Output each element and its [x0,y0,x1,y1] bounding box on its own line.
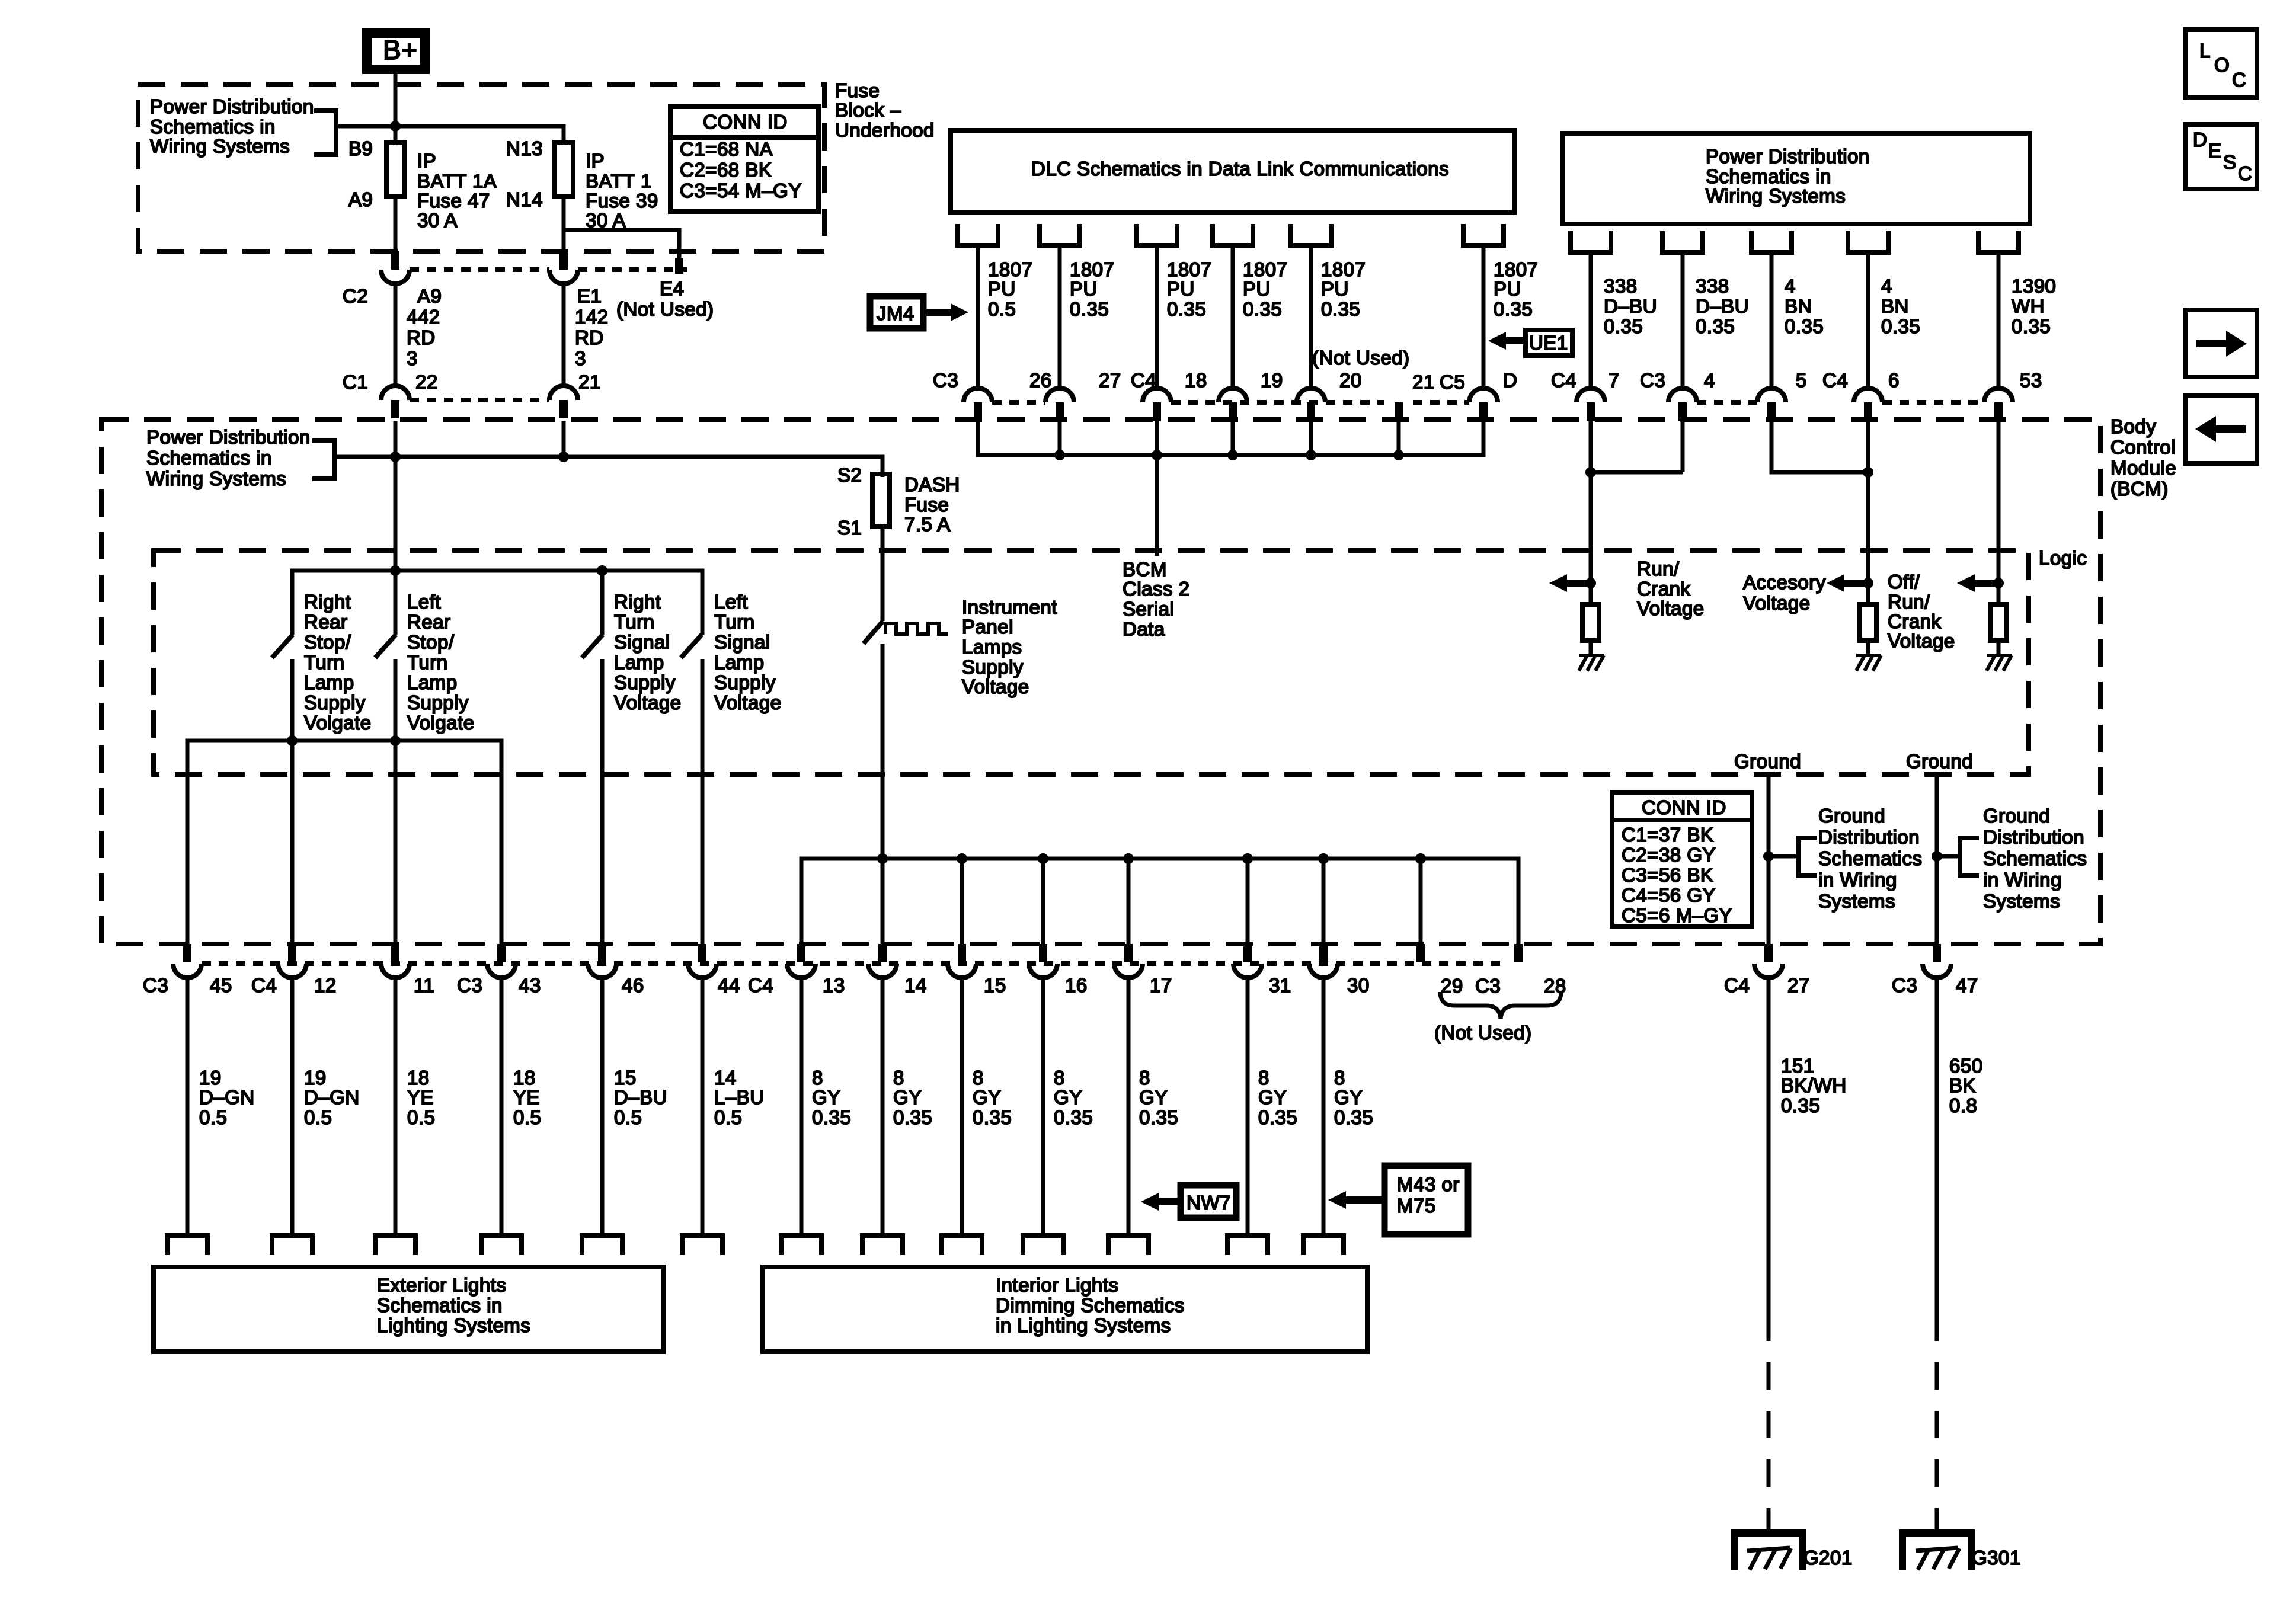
svg-text:GY: GY [973,1086,1002,1108]
node junction 7-4 [1585,467,1596,478]
svg-text:GY: GY [1139,1086,1168,1108]
ground internal 3 [1987,655,2012,671]
svg-text:Ground: Ground [1906,750,1973,772]
exterior pin bracket [165,1235,210,1255]
svg-text:BATT 1: BATT 1 [586,170,652,192]
wire ground 650 dashed [1935,1314,1939,1515]
wire sw4 bottom [701,659,705,944]
wire DASH fuse to switch [881,524,885,621]
dotted connector line bottom row [202,961,1500,966]
svg-text:C4: C4 [748,974,773,996]
svg-text:0.5: 0.5 [304,1106,332,1128]
svg-text:PU: PU [1494,278,1521,300]
svg-text:Schematics in: Schematics in [1706,165,1831,187]
svg-text:0.35: 0.35 [1881,315,1920,337]
bracket ground distribution 1 [1798,838,1817,876]
connector bottom stub [183,944,191,962]
svg-text:22: 22 [415,371,438,393]
svg-text:C3: C3 [143,974,168,996]
svg-text:0.5: 0.5 [407,1106,435,1128]
svg-text:Distribution: Distribution [1818,826,1920,848]
svg-text:30 A: 30 A [586,209,626,231]
svg-text:19: 19 [304,1067,327,1089]
svg-text:Supply: Supply [304,692,366,713]
svg-text:Module: Module [2110,457,2176,479]
svg-text:GY: GY [1258,1086,1287,1108]
connector bottom stub [288,944,296,962]
svg-text:C4: C4 [1724,974,1750,996]
svg-text:7.5 A: 7.5 A [904,513,951,535]
svg-text:BN: BN [1785,295,1812,317]
fuse IP BATT 1 Fuse 39 30A [555,142,573,197]
connector DLC pin arc 6 [1469,388,1498,402]
svg-text:0.5: 0.5 [988,298,1016,320]
wire lamp output 18 [394,977,398,1235]
svg-text:Voltage: Voltage [1743,592,1811,614]
svg-text:YE: YE [513,1086,540,1108]
svg-text:C3: C3 [1892,974,1917,996]
DLC pin bracket 5 [1288,224,1334,245]
wire sw3 bottom [600,659,605,944]
node ground 47 tap [1932,851,1942,862]
svg-text:Stop/: Stop/ [304,631,351,653]
DESC box [2185,124,2257,189]
svg-text:B9: B9 [348,137,373,159]
Power Distribution Schematics box (right) [1562,133,2030,224]
svg-text:20: 20 [1339,369,1362,391]
node junction B+ feed [390,121,401,132]
wire resistor 3 to ground [1997,641,2001,655]
connector pin 47 arc [1923,964,1951,978]
exterior pin bracket [270,1235,315,1255]
connector DLC pin arc 2 [1045,388,1074,402]
wire DLC pin tap [1231,421,1235,455]
svg-text:C5=6 M–GY: C5=6 M–GY [1622,904,1732,926]
wire bus2 drop [960,859,964,944]
svg-text:BK/WH: BK/WH [1781,1074,1847,1096]
dotted connector line C2-E1 [410,267,549,272]
svg-text:C1: C1 [343,371,368,393]
node ground 27 tap [1763,851,1774,862]
dotted line 21-D [1413,400,1469,405]
svg-text:47: 47 [1956,974,1978,996]
svg-text:Fuse 47: Fuse 47 [417,190,490,212]
svg-text:44: 44 [718,974,740,996]
svg-text:L: L [2199,40,2211,62]
svg-text:Volgate: Volgate [304,712,372,734]
svg-text:(BCM): (BCM) [2110,478,2169,500]
svg-text:0.35: 0.35 [1494,298,1533,320]
svg-text:338: 338 [1604,275,1638,297]
wire sw1 bottom [290,659,295,944]
wire PD pin 3 [1770,252,1774,388]
svg-text:Fuse 39: Fuse 39 [586,190,658,212]
svg-text:Supply: Supply [614,671,676,693]
node tap run/crank [1585,578,1596,588]
svg-text:Schematics in: Schematics in [146,447,272,469]
svg-text:C4=56 GY: C4=56 GY [1622,884,1716,906]
interior pin bracket [1301,1235,1346,1255]
arrow box JM4 [870,296,923,328]
wire branch to fuse 39 [395,126,564,145]
connector bottom arc [1233,964,1262,978]
svg-text:1807: 1807 [1494,258,1538,280]
wire DLC pin 6 [1482,245,1486,388]
svg-text:Wiring Systems: Wiring Systems [150,135,290,157]
svg-text:Left: Left [714,591,748,613]
wire lamp output 14 [701,977,705,1235]
connector bottom stub [878,944,887,962]
node tap off/run/crank [1993,578,2004,588]
node bus2 junction [1242,853,1253,864]
svg-text:Schematics: Schematics [1818,847,1923,869]
connector bottom stub [391,944,399,962]
svg-text:0.35: 0.35 [1321,298,1360,320]
dotted line 26-27 [992,400,1045,405]
svg-text:Schematics in: Schematics in [150,116,276,137]
arrow accessory voltage [1827,574,1844,592]
wire feeder bus switches [292,571,702,635]
svg-text:Lamp: Lamp [304,671,354,693]
svg-text:Signal: Signal [614,631,670,653]
svg-text:in Wiring: in Wiring [1983,869,2062,891]
svg-text:19: 19 [199,1067,222,1089]
wire 442 RD 3 [394,284,398,386]
svg-text:14: 14 [904,974,927,996]
svg-text:31: 31 [1269,974,1291,996]
node bus2 junction [1318,853,1329,864]
svg-text:8: 8 [1054,1067,1065,1089]
svg-text:E4: E4 [660,277,684,299]
dotted connector line E1-E4 [578,267,687,272]
Logic dashed box [154,550,2029,774]
svg-text:N14: N14 [506,188,543,210]
connector C2 stub [391,251,399,270]
connector bottom arc [787,964,816,978]
svg-text:0.35: 0.35 [1604,315,1643,337]
svg-text:11: 11 [414,974,434,996]
brace not used 29-28 [1440,992,1561,1019]
node bus2 junction [1038,853,1048,864]
CONN ID table (fuse block) [670,107,818,212]
wire lamp output 18 [500,977,504,1235]
svg-text:C3=54 M–GY: C3=54 M–GY [680,180,802,201]
connector DLC pin arc 4 [1219,388,1247,402]
svg-text:(Not Used): (Not Used) [1312,347,1410,369]
connector bottom arc [173,964,202,978]
resistor run/crank [1582,604,1599,641]
svg-text:D–GN: D–GN [199,1086,255,1108]
wire DLC pin tap [1058,421,1062,455]
svg-text:C: C [2238,162,2252,184]
DLC pin bracket 6 [1461,224,1506,245]
svg-text:Panel: Panel [962,616,1013,638]
svg-text:0.35: 0.35 [1070,298,1109,320]
PD pin bracket 3 [1749,231,1794,252]
svg-text:18: 18 [407,1067,430,1089]
arrow box left [2185,396,2257,463]
connector bottom arc [948,964,976,978]
wire 142 RD 3 [562,284,566,386]
exterior pin bracket [479,1235,524,1255]
arrow run/crank voltage [1549,574,1567,592]
svg-text:Left: Left [407,591,441,613]
svg-text:Underhood: Underhood [835,119,935,141]
connector pin 47 stub [1933,944,1941,962]
node junction 5-6 [1863,467,1873,478]
fuse block - underhood dashed box [138,84,824,251]
connector E1 stub [559,251,568,270]
svg-text:15: 15 [614,1067,637,1089]
svg-text:JM4: JM4 [877,302,914,324]
node bus2 junction [1415,853,1426,864]
svg-text:PU: PU [1243,278,1271,300]
svg-text:30 A: 30 A [417,209,458,231]
svg-text:Run/: Run/ [1888,591,1930,613]
wire resistor 2 to ground [1866,641,1870,655]
svg-text:C3: C3 [457,974,482,996]
svg-text:30: 30 [1347,974,1370,996]
DLC Schematics box [951,130,1514,212]
connector C1 pin 22 [381,386,410,400]
connector pin 27 stub [1764,944,1773,962]
svg-text:C3: C3 [933,369,958,391]
svg-text:C2=38 GY: C2=38 GY [1622,844,1716,866]
svg-text:45: 45 [210,974,232,996]
svg-text:650: 650 [1949,1055,1983,1077]
svg-text:17: 17 [1150,974,1172,996]
bracket to PD label (BCM) [312,441,334,479]
svg-text:1807: 1807 [1243,258,1287,280]
interior pin bracket [1106,1235,1151,1255]
svg-text:3: 3 [407,347,418,369]
connector bottom arc [1029,964,1057,978]
dimmer wave symbol [885,623,948,634]
svg-text:Crank: Crank [1637,578,1691,600]
svg-text:O: O [2214,54,2230,76]
svg-text:S2: S2 [837,464,862,486]
wire bus2 drop [1041,859,1045,944]
connector DLC pin arc 5 [1297,388,1325,402]
connector bottom arc [1309,964,1338,978]
svg-text:PU: PU [988,278,1016,300]
svg-text:Distribution: Distribution [1983,826,2084,848]
svg-text:Accesory: Accesory [1743,571,1826,593]
connector bottom arc [868,964,897,978]
svg-text:0.35: 0.35 [1258,1106,1297,1128]
wire to bracket 1 [1769,854,1798,859]
connector bottom stub [698,944,706,962]
svg-text:D: D [2193,129,2207,151]
connector DLC pin arc 3 [1143,388,1171,402]
svg-text:0.5: 0.5 [614,1106,642,1128]
svg-text:18: 18 [513,1067,536,1089]
svg-text:26: 26 [1029,369,1052,391]
node junction 21 feed [558,452,569,462]
svg-text:Serial: Serial [1123,598,1174,620]
ground G201 [1734,1533,1803,1570]
svg-text:C1=68 NA: C1=68 NA [680,138,773,160]
arrow box M43 or M75 [1384,1166,1468,1234]
svg-text:Systems: Systems [1818,890,1895,912]
svg-text:0.35: 0.35 [973,1106,1012,1128]
wire dimming output [1246,977,1250,1235]
svg-text:21: 21 [1412,371,1435,393]
svg-text:BATT 1A: BATT 1A [417,170,497,192]
connector pin 28 stub (not used) [1514,944,1523,962]
svg-text:Lamp: Lamp [407,671,458,693]
connector pin 21 C5 stub (not used) [1395,402,1403,421]
svg-text:Data: Data [1123,618,1165,640]
connector PD pin arc 2 [1668,388,1697,402]
wire PD pin 4 [1866,252,1870,388]
svg-text:C4: C4 [1822,369,1848,391]
svg-text:1807: 1807 [1167,258,1211,280]
wire dimming output [1041,977,1045,1235]
svg-text:N13: N13 [506,137,543,159]
wire bus2 drop [1127,859,1131,944]
svg-text:Ground: Ground [1983,805,2050,827]
wire interior lights bus [801,859,1518,944]
DLC pin bracket 4 [1210,224,1255,245]
DLC pin bracket 2 [1037,224,1082,245]
dotted connector line 22-21 [410,398,549,402]
svg-text:D: D [1503,369,1517,391]
exterior pin bracket [373,1235,418,1255]
arrow M43 [1328,1191,1346,1209]
svg-text:C3=56 BK: C3=56 BK [1622,864,1713,886]
svg-text:BK: BK [1949,1074,1976,1096]
switch right rear stop/turn [272,635,293,658]
svg-text:BN: BN [1881,295,1909,317]
wire pin22 internal [394,421,398,635]
svg-text:Turn: Turn [407,651,448,673]
svg-text:Rear: Rear [407,611,451,633]
wire pin21 internal [562,421,566,457]
arrow box NW7 [1181,1185,1236,1218]
svg-text:Exterior Lights: Exterior Lights [377,1274,506,1296]
connector PD pin arc 5 [1984,388,2013,402]
svg-text:Power Distribution: Power Distribution [150,95,314,117]
wire DLC pin 4 [1231,245,1235,388]
wire BCM class 2 serial data [1155,455,1159,556]
svg-text:D–BU: D–BU [614,1086,667,1108]
svg-text:0.5: 0.5 [199,1106,227,1128]
wire bus2 drop [1246,859,1250,944]
interior pin bracket [1021,1235,1066,1255]
node DLC bus junction [1054,450,1065,460]
wire DLC internal bus [978,421,1483,455]
connector bottom stub [598,944,606,962]
svg-text:0.5: 0.5 [513,1106,541,1128]
svg-text:29: 29 [1441,975,1463,997]
svg-text:43: 43 [519,974,541,996]
svg-text:WH: WH [2012,295,2045,317]
node feeder junction sw3 [597,565,607,576]
svg-text:19: 19 [1261,369,1283,391]
svg-text:8: 8 [893,1067,904,1089]
svg-text:PU: PU [1070,278,1098,300]
svg-text:DASH: DASH [904,473,960,495]
svg-text:Volgate: Volgate [407,712,475,734]
arrow off/run/crank voltage [1957,574,1975,592]
svg-text:Supply: Supply [714,671,776,693]
wire pin53 internal [1997,421,2001,604]
node bus1 junction sw2 [390,735,401,746]
svg-text:in Wiring: in Wiring [1818,869,1897,891]
svg-text:Supply: Supply [962,656,1024,678]
svg-text:GY: GY [893,1086,922,1108]
svg-text:NW7: NW7 [1187,1192,1231,1214]
DLC pin bracket 1 [955,224,1000,245]
wire DLC pin 5 [1309,245,1313,388]
switch instrument panel lamps [864,621,883,644]
svg-text:Turn: Turn [714,611,755,633]
connector bottom stub [958,944,966,962]
switch right turn signal [582,635,603,658]
wire output bus rear lamps [187,741,501,944]
svg-text:C2=68 BK: C2=68 BK [680,159,772,181]
wire lamp output 19 [186,977,190,1235]
svg-text:4: 4 [1704,369,1715,391]
wire ground 650 [1935,977,1939,1314]
svg-text:GY: GY [1334,1086,1363,1108]
svg-text:0.35: 0.35 [1785,315,1824,337]
svg-text:6: 6 [1888,369,1900,391]
fuse IP BATT 1A Fuse 47 30A [386,142,405,197]
bracket to power distribution label [314,111,336,155]
svg-text:Supply: Supply [407,692,469,713]
svg-text:0.35: 0.35 [812,1106,851,1128]
connector bottom stub [797,944,805,962]
svg-text:Power Distribution: Power Distribution [146,426,311,448]
svg-text:4: 4 [1785,275,1796,297]
wire bus2 drop [1419,859,1423,944]
wire branch to E4 [564,230,679,258]
svg-text:C3: C3 [1640,369,1665,391]
connector pin 29 stub (not used) [1416,944,1425,962]
svg-text:C5: C5 [1440,371,1465,393]
CONN ID table (BCM) [1612,792,1752,926]
svg-text:5: 5 [1796,369,1807,391]
svg-text:in Lighting Systems: in Lighting Systems [996,1314,1171,1336]
switch left rear stop/turn [375,635,396,658]
arrow NW7 [1141,1193,1159,1211]
svg-text:Right: Right [614,591,661,613]
svg-text:Schematics: Schematics [1983,847,2087,869]
svg-text:53: 53 [2020,369,2042,391]
wire ground 27 [1767,776,1771,944]
wire bracket to B+ node [336,124,395,129]
PD pin bracket 5 [1976,231,2021,252]
svg-text:142: 142 [575,306,609,328]
power feed B+ box [367,33,425,69]
svg-text:C: C [2232,69,2246,91]
svg-text:15: 15 [984,974,1006,996]
svg-text:Block –: Block – [835,99,901,121]
connector bottom stub [1319,944,1328,962]
connector E4 stub (not used) [675,258,683,274]
wire ground 151 end [1767,1515,1771,1535]
interior pin bracket [860,1235,905,1255]
wire PD pin 2 [1681,252,1685,388]
svg-text:13: 13 [823,974,845,996]
svg-text:E: E [2208,140,2222,162]
svg-text:Class 2: Class 2 [1123,578,1190,600]
svg-text:Logic: Logic [2039,547,2087,569]
svg-text:(Not Used): (Not Used) [616,298,714,320]
svg-text:IP: IP [586,150,605,172]
